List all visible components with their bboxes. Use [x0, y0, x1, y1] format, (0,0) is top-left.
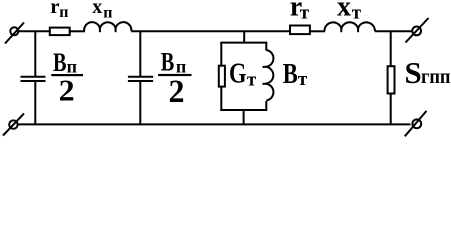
conductance branch lower wire	[220, 87, 222, 111]
magnetizing branch bottom stem wire	[243, 110, 245, 124]
susceptance branch upper wire	[265, 43, 267, 51]
load branch lower wire	[390, 94, 392, 125]
capacitor C1 plates B_p/2	[21, 77, 46, 81]
svg-text:x: x	[92, 0, 102, 18]
svg-text:B: B	[283, 59, 298, 90]
susceptance branch lower wire	[265, 101, 267, 111]
conductance G_t box	[219, 66, 225, 87]
wire top segment (x_p to resistor r_t)	[131, 30, 289, 32]
conductance branch upper wire	[220, 43, 222, 66]
capacitor C2 upper lead	[139, 31, 141, 76]
svg-text:S: S	[405, 55, 422, 90]
inductor B_t (vertical coil)	[263, 50, 274, 101]
magnetizing branch bottom bar wire	[220, 109, 265, 111]
svg-text:т: т	[352, 3, 362, 24]
svg-text:п: п	[103, 5, 112, 22]
capacitor C2 lower lead	[139, 81, 141, 124]
label r_t	[290, 0, 310, 24]
wire bottom rail	[18, 123, 411, 125]
inductor L1 x_p	[84, 22, 131, 32]
load branch upper wire	[390, 31, 392, 66]
terminal bottom-left	[3, 114, 24, 136]
svg-text:r: r	[50, 0, 59, 18]
svg-text:2: 2	[59, 72, 75, 107]
wire top segment (r_t to x_t)	[310, 30, 325, 32]
svg-text:G: G	[229, 58, 247, 90]
svg-text:x: x	[337, 0, 351, 22]
wire top segment (r_p to x_p)	[70, 30, 85, 32]
svg-text:гпп: гпп	[421, 64, 451, 88]
magnetizing branch top bar wire	[220, 42, 267, 44]
magnetizing branch top stem wire	[243, 31, 245, 43]
label r_p	[50, 0, 68, 21]
inductor L2 x_t	[324, 22, 374, 32]
load box S_gpp	[388, 66, 395, 93]
resistor R1 r_p	[50, 28, 70, 35]
capacitor C1 lower lead	[34, 81, 36, 124]
terminal bottom-right	[405, 111, 427, 136]
wire top segment (input terminal to resistor r_p)	[19, 30, 50, 32]
label S_gpp	[405, 55, 451, 90]
svg-text:т: т	[247, 70, 257, 91]
terminal output top-right	[406, 18, 429, 43]
wire top segment (x_t to output terminal)	[375, 30, 412, 32]
capacitor C2 plates B_p/2	[128, 77, 153, 81]
svg-text:B: B	[161, 47, 175, 76]
label G_t	[229, 58, 257, 91]
svg-text:2: 2	[169, 74, 185, 110]
capacitor C1 upper lead	[34, 31, 36, 76]
terminal input top-left	[5, 23, 24, 44]
svg-text:п: п	[59, 4, 68, 21]
svg-text:т: т	[298, 69, 308, 90]
label B_t	[283, 59, 308, 90]
resistor R2 r_t	[290, 26, 310, 35]
label x_p	[92, 0, 112, 22]
label B_p/2 (second)	[158, 47, 191, 109]
label x_t	[337, 0, 362, 24]
svg-text:т: т	[300, 3, 310, 24]
label B_p/2 (first)	[51, 48, 83, 107]
